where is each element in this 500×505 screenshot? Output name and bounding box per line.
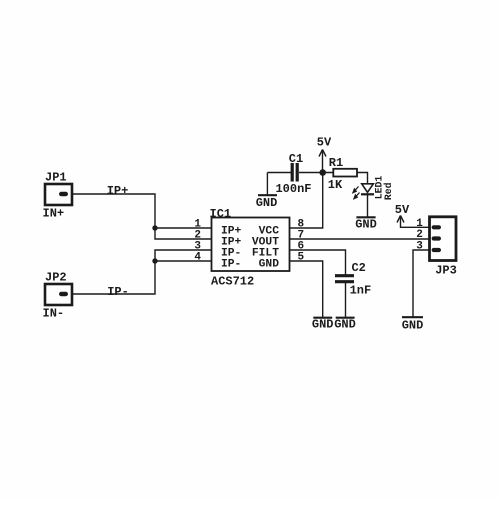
svg-text:1: 1 [416, 218, 423, 230]
svg-text:GND: GND [256, 196, 278, 210]
svg-text:C1: C1 [289, 152, 303, 166]
svg-text:GND: GND [355, 218, 377, 232]
svg-text:GND: GND [334, 318, 356, 332]
svg-text:IN+: IN+ [43, 207, 65, 221]
svg-text:IN-: IN- [43, 307, 65, 321]
svg-text:JP1: JP1 [45, 171, 67, 185]
svg-text:3: 3 [416, 241, 423, 253]
svg-text:ACS712: ACS712 [211, 274, 254, 288]
svg-text:5: 5 [298, 252, 305, 264]
svg-text:GND: GND [312, 318, 334, 332]
svg-text:R1: R1 [329, 156, 343, 170]
svg-text:JP3: JP3 [435, 263, 457, 277]
svg-text:1K: 1K [328, 178, 343, 192]
svg-text:GND: GND [402, 318, 424, 332]
svg-text:1nF: 1nF [350, 284, 372, 298]
svg-text:IP-: IP- [221, 258, 241, 270]
svg-text:IC1: IC1 [210, 207, 232, 221]
svg-text:IP-: IP- [107, 285, 129, 299]
svg-text:GND: GND [259, 258, 280, 270]
svg-text:5V: 5V [395, 203, 410, 217]
svg-text:JP2: JP2 [45, 271, 67, 285]
svg-text:4: 4 [194, 252, 201, 264]
svg-text:C2: C2 [351, 261, 365, 275]
svg-text:IP+: IP+ [107, 184, 129, 198]
svg-text:100nF: 100nF [275, 182, 311, 196]
svg-text:2: 2 [416, 229, 423, 241]
svg-text:5V: 5V [317, 136, 332, 150]
svg-text:Red: Red [383, 182, 394, 200]
